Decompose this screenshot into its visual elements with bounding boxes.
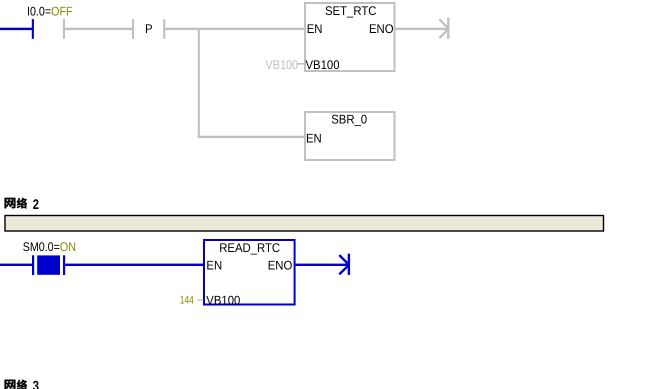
svg-text:EN: EN	[307, 22, 323, 36]
box READ_RTC (blue, powered)	[204, 240, 295, 307]
svg-text:SBR_0: SBR_0	[331, 113, 367, 127]
contact I0.0 right bar (unpowered gray)	[63, 19, 65, 39]
svg-text:EN: EN	[206, 258, 222, 272]
svg-text:SM0.0=ON: SM0.0=ON	[23, 240, 76, 254]
rung terminator arrow (blue)	[339, 254, 349, 275]
contact SM0.0 right bar	[63, 255, 65, 275]
contact SM0.0 left bar	[32, 255, 34, 275]
contact SM0.0 energized fill	[37, 255, 60, 274]
wire: left rail stub (powered, blue)	[0, 28, 32, 30]
operand echo VB100 (gray) with tick	[266, 58, 305, 72]
label 网络 3	[5, 378, 40, 389]
wire: contact P to SET_RTC box	[165, 28, 304, 30]
svg-text:ENO: ENO	[369, 22, 394, 36]
svg-text:I0.0=OFF: I0.0=OFF	[27, 4, 73, 18]
svg-text:SET_RTC: SET_RTC	[325, 4, 376, 18]
box SET_RTC	[305, 3, 395, 72]
status value 144 (olive) with tick	[180, 294, 203, 306]
network comment box	[5, 216, 604, 232]
contact I0.0 left bar (powered)	[32, 19, 34, 39]
wire: branch vertical drop at junction	[198, 28, 200, 138]
svg-text:144: 144	[180, 294, 194, 306]
svg-text:EN: EN	[306, 131, 322, 145]
svg-text:VB100: VB100	[206, 293, 240, 307]
contact P (positive edge) left bar	[132, 19, 134, 39]
svg-text:P: P	[145, 22, 153, 36]
wire: contact SM0.0 to READ_RTC	[65, 264, 203, 266]
contact P right bar	[163, 19, 165, 39]
svg-text:2: 2	[33, 196, 39, 212]
svg-text:VB100: VB100	[306, 58, 340, 72]
svg-text:READ_RTC: READ_RTC	[219, 241, 280, 255]
svg-text:VB100: VB100	[266, 58, 299, 72]
wire: ENO output of SET_RTC	[396, 28, 449, 30]
wire: branch horizontal to SBR_0	[198, 136, 304, 138]
rung terminator arrow (gray)	[439, 18, 448, 39]
svg-text:ENO: ENO	[268, 258, 293, 272]
svg-text:3: 3	[33, 378, 39, 389]
wire: left rail stub net2 (blue)	[0, 264, 32, 266]
box SBR_0	[305, 112, 395, 160]
label 网络 2	[5, 196, 40, 212]
wire: contact I0.0 to contact P	[65, 28, 132, 30]
wire: ENO output of READ_RTC	[296, 264, 348, 266]
